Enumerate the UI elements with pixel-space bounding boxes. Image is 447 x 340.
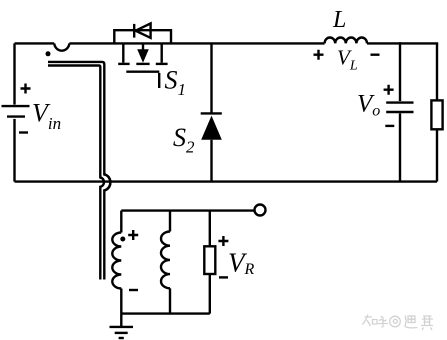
inductor L	[325, 38, 367, 44]
svg-text:Vo: Vo	[357, 91, 380, 120]
wire: secondary bottom rail	[121, 312, 210, 314]
node: secondary winding polarity dot	[120, 237, 125, 242]
svg-text:VR: VR	[228, 248, 255, 279]
terminal (open circle)	[255, 205, 266, 216]
diode S2	[201, 43, 222, 181]
svg-text:S2: S2	[173, 123, 195, 157]
watermark: zhihu @yuqi (light gray)	[363, 315, 434, 331]
label: minus sign at secondary bottom	[129, 289, 138, 291]
MOSFET S1	[118, 43, 167, 88]
wire: top rail from Vin positive to transformer primary	[15, 42, 55, 44]
node: primary winding polarity dot	[46, 51, 51, 56]
resistor R of VR	[204, 211, 215, 314]
wire: top rail from primary loop to MOSFET S1	[69, 42, 123, 44]
label: minus sign of Vo	[385, 125, 394, 127]
wire: top rail from S1 to inductor L	[162, 42, 325, 44]
label: minus sign of VL	[371, 54, 380, 56]
load resistor R	[431, 43, 442, 181]
wire: secondary top rail to terminal	[121, 209, 254, 211]
label: minus sign of VR	[219, 276, 228, 278]
label: minus sign of Vin	[19, 131, 28, 133]
label: plus sign of Vo	[384, 85, 394, 95]
svg-text:S1: S1	[165, 66, 187, 100]
svg-text:L: L	[332, 7, 346, 33]
label: plus sign of VR	[218, 236, 228, 246]
battery source Vin	[2, 43, 30, 181]
label: plus sign of Vin	[21, 84, 31, 94]
auxiliary winding (middle)	[161, 211, 170, 314]
transformer core crossing bumps over bottom rail	[100, 174, 110, 190]
body diode of S1 (antiparallel)	[114, 23, 171, 43]
transformer core (double lines)	[48, 62, 110, 280]
transformer secondary winding (left)	[112, 211, 121, 314]
wire: top rail under S1 channel	[123, 42, 161, 44]
capacitor output Co	[386, 42, 413, 181]
wire: bottom rail	[15, 180, 438, 182]
wire: top rail from L to output corner	[367, 42, 438, 44]
ground	[110, 314, 134, 338]
label: plus sign at secondary dot	[128, 230, 138, 240]
svg-text:Vin: Vin	[32, 99, 61, 134]
svg-text:VL: VL	[337, 46, 358, 74]
label: plus sign of VL	[314, 50, 324, 60]
transformer T primary single-turn loop on top rail	[54, 43, 69, 50]
